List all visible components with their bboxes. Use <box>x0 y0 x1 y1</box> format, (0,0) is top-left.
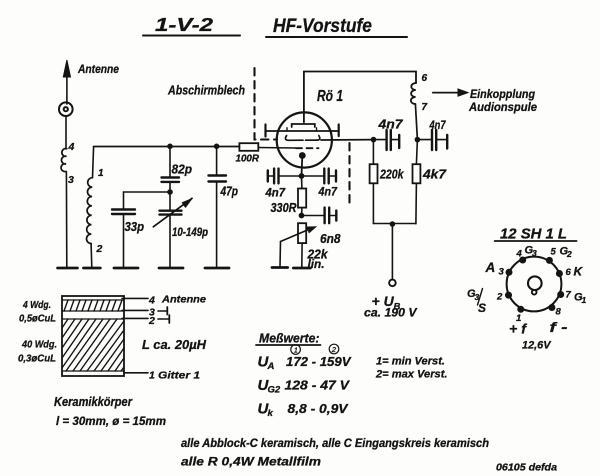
node bus-82p <box>167 144 173 150</box>
svg-text:172 - 159V: 172 - 159V <box>286 354 352 369</box>
notes min max <box>375 356 448 381</box>
wire anode top run <box>304 72 416 84</box>
svg-text:l = 30mm, ø = 15mm: l = 30mm, ø = 15mm <box>56 416 166 428</box>
potentiometer 22k <box>298 223 329 271</box>
socket label 12 SH 1 L <box>495 227 577 243</box>
svg-text:3: 3 <box>499 267 505 278</box>
row UA <box>258 354 352 373</box>
tap 4 Antenne <box>122 294 206 307</box>
ground wiper <box>272 266 288 269</box>
input coil L1 <box>86 178 92 244</box>
wire cathode down <box>301 158 304 176</box>
svg-text:4n7: 4n7 <box>429 118 447 132</box>
svg-text:82p: 82p <box>172 162 193 177</box>
svg-text:2: 2 <box>96 243 103 255</box>
socket pin 8 <box>548 304 555 311</box>
capacitor 6n8 <box>302 208 341 246</box>
wiper arrow 22k <box>280 227 317 267</box>
svg-text:4n7: 4n7 <box>377 118 403 132</box>
svg-text:0,3øCuL: 0,3øCuL <box>18 353 56 365</box>
svg-text:7: 7 <box>566 290 572 301</box>
svg-text:6: 6 <box>422 73 428 84</box>
hatch top winding <box>64 300 122 311</box>
tap 2 <box>122 315 169 327</box>
table Messwerte <box>256 331 321 346</box>
svg-text:2: 2 <box>331 345 337 354</box>
svg-text:3: 3 <box>68 174 74 186</box>
wire coil L1 to ground <box>90 244 93 268</box>
wire UB join <box>373 223 416 225</box>
svg-text:1-V-2: 1-V-2 <box>155 15 213 35</box>
pin labels <box>467 245 587 352</box>
capacitor 33p <box>112 192 144 268</box>
tap 1 Gitter1 <box>124 370 200 382</box>
svg-text:220k: 220k <box>379 167 404 182</box>
winding labels <box>18 299 57 365</box>
tube anode <box>292 72 315 128</box>
title HF-Vorstufe <box>266 16 407 37</box>
svg-text:Rö 1: Rö 1 <box>317 88 343 105</box>
variable capacitor 10-149p <box>153 192 208 268</box>
node UB <box>390 221 396 227</box>
svg-text:1: 1 <box>582 295 587 305</box>
node cathode lower <box>299 213 305 219</box>
node anode-220k <box>371 137 377 143</box>
row UG2 <box>258 377 351 396</box>
svg-text:7: 7 <box>422 102 428 113</box>
svg-text:47p: 47p <box>220 185 239 199</box>
socket pin 6 <box>556 270 563 277</box>
socket key <box>528 276 542 294</box>
wire coil to node <box>415 104 417 140</box>
ground 33p <box>114 267 138 270</box>
wire coil to ground <box>65 172 67 268</box>
svg-text:2: 2 <box>148 315 155 327</box>
svg-text:4 Wdg.: 4 Wdg. <box>22 299 51 311</box>
resistor 100R <box>236 143 260 164</box>
hatch main winding <box>62 319 124 371</box>
svg-text:+ f: + f <box>509 322 528 337</box>
node 82p-33p <box>167 189 173 195</box>
svg-text:4: 4 <box>516 249 523 260</box>
label Einkopplung Audionspule <box>468 87 537 114</box>
ground 47p <box>205 267 229 270</box>
capacitor 4n7 cathode left <box>265 169 302 200</box>
svg-text:S: S <box>478 301 486 315</box>
capacitor 4n7 right bypass <box>417 118 447 150</box>
antenna coil (taps 4-3) <box>61 149 67 172</box>
svg-text:330R: 330R <box>271 200 298 215</box>
socket pin 1 <box>517 306 524 313</box>
wire input bus <box>94 146 240 148</box>
svg-text:Gitter 1: Gitter 1 <box>158 370 200 382</box>
resistor 220k <box>370 140 405 224</box>
svg-text:4: 4 <box>148 295 155 307</box>
resistor 4k7 <box>413 140 447 224</box>
svg-text:alle R 0,4W Metallfilm: alle R 0,4W Metallfilm <box>181 457 321 469</box>
svg-text:K: K <box>574 265 584 279</box>
wire bus to input coil <box>93 147 94 178</box>
tube grid dashed <box>296 147 319 149</box>
svg-text:4k7: 4k7 <box>422 167 447 182</box>
tube grid g1 wire to anode network <box>285 136 373 141</box>
svg-text:2= max Verst.: 2= max Verst. <box>375 369 448 381</box>
svg-text:6: 6 <box>566 267 572 278</box>
svg-text:8,8 - 0,9V: 8,8 - 0,9V <box>288 401 349 416</box>
node coil-4k7 <box>415 137 421 143</box>
arrow Einkopplung <box>433 89 468 96</box>
capacitor 47p <box>209 146 239 267</box>
svg-text:0,5øCuL: 0,5øCuL <box>19 313 56 325</box>
row Uk <box>258 401 349 420</box>
svg-text:alle Abblock-C keramisch, alle: alle Abblock-C keramisch, alle C Eingang… <box>181 438 489 450</box>
wire to 33p <box>124 191 171 193</box>
socket circle <box>507 257 562 312</box>
capacitor 4n7 left bypass <box>374 118 404 151</box>
svg-text:1: 1 <box>98 168 104 179</box>
svg-text:A: A <box>267 361 275 372</box>
node cathode junction <box>299 173 305 179</box>
socket pin 3 <box>506 269 513 276</box>
circled note 2 <box>329 344 339 354</box>
svg-text:2: 2 <box>496 292 503 303</box>
svg-text:06105 defda: 06105 defda <box>496 463 557 474</box>
ground variable capacitor <box>159 267 183 270</box>
circled note 1 <box>291 345 301 355</box>
svg-text:4n7: 4n7 <box>265 188 286 200</box>
tube Rö 1 envelope <box>277 112 332 167</box>
svg-text:f -: f - <box>550 320 569 335</box>
svg-text:4: 4 <box>68 141 75 153</box>
svg-text:Antenne: Antenne <box>161 294 206 306</box>
shield Abschirmblech dashed <box>255 68 278 140</box>
title 1-V-2 <box>143 15 240 36</box>
svg-text:3: 3 <box>532 248 537 258</box>
tap 3 <box>122 307 167 319</box>
svg-text:1= min Verst.: 1= min Verst. <box>376 356 445 368</box>
wire antenna to coil <box>65 116 67 149</box>
svg-text:33p: 33p <box>125 220 145 234</box>
ground L1 <box>84 267 101 270</box>
svg-text:L ca. 20µH: L ca. 20µH <box>142 337 207 352</box>
svg-text:40 Wdg.: 40 Wdg. <box>21 339 57 351</box>
coupling coil 6-7 <box>411 73 428 113</box>
svg-text:100R: 100R <box>236 153 260 165</box>
ground 22k <box>293 267 310 270</box>
socket pin 4 <box>519 257 526 264</box>
antenna arrow <box>63 60 70 104</box>
socket pin 2 <box>505 292 512 299</box>
svg-text:Antenne: Antenne <box>77 62 119 76</box>
svg-text:5: 5 <box>551 247 557 258</box>
svg-text:Meßwerte:: Meßwerte: <box>259 331 320 346</box>
svg-text:ca. 190 V: ca. 190 V <box>364 308 418 320</box>
label +UB ca. 190V <box>364 293 418 320</box>
capacitor 82p <box>162 146 193 192</box>
svg-text:8: 8 <box>556 307 562 318</box>
svg-text:2: 2 <box>566 249 572 259</box>
svg-text:G2: G2 <box>268 385 281 396</box>
svg-text:128 - 47 V: 128 - 47 V <box>285 378 351 393</box>
svg-text:12,6V: 12,6V <box>522 340 552 352</box>
svg-text:Abschirmblech: Abschirmblech <box>167 83 245 98</box>
svg-text:HF-Vorstufe: HF-Vorstufe <box>273 16 372 37</box>
tube cathode node <box>299 152 306 159</box>
svg-text:10-149p: 10-149p <box>172 227 208 239</box>
svg-text:1: 1 <box>149 370 155 382</box>
capacitor 4n7 cathode right <box>302 169 338 199</box>
socket pin 7 <box>557 291 564 298</box>
svg-text:4n7: 4n7 <box>318 187 338 199</box>
svg-text:k: k <box>268 408 274 419</box>
resistor 330R <box>271 176 307 216</box>
coil former body <box>62 296 124 376</box>
shield dashed right segment <box>348 143 350 205</box>
wire 100R to grid <box>258 147 295 150</box>
node bus-47p <box>214 144 220 150</box>
svg-text:A: A <box>485 260 496 275</box>
svg-text:Einkopplung: Einkopplung <box>470 87 536 101</box>
svg-text:Keramikkörper: Keramikkörper <box>54 395 133 409</box>
terminal UB <box>389 280 396 287</box>
antenna coupling symbol <box>59 102 73 116</box>
svg-text:6n8: 6n8 <box>320 232 341 246</box>
tube grid g2 line <box>266 125 339 137</box>
wire to UB terminal <box>391 224 393 280</box>
ground antenna <box>58 267 78 270</box>
svg-text:Audionspule: Audionspule <box>468 100 537 114</box>
svg-text:12 SH 1 L: 12 SH 1 L <box>500 227 567 243</box>
socket pin 5 <box>546 257 553 264</box>
